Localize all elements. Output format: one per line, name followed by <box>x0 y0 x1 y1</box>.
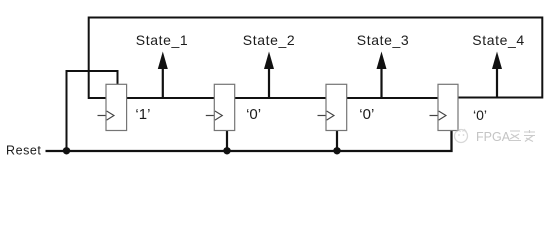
junction dot at U3 clear <box>333 147 340 154</box>
wire: reset rail <box>46 130 452 151</box>
clock stub U3 <box>318 115 326 117</box>
arrow shaft State_2 <box>268 67 270 98</box>
svg-text:State_2: State_2 <box>243 32 295 48</box>
arrow shaft State_4 <box>496 67 498 98</box>
flip-flop U3 <box>326 84 347 130</box>
wire: set input of U1 from reset rail <box>67 71 118 151</box>
svg-text:State_4: State_4 <box>472 32 524 48</box>
svg-text:‘0’: ‘0’ <box>246 106 261 123</box>
svg-text:State_3: State_3 <box>357 32 409 48</box>
arrowhead State_3 <box>377 52 387 70</box>
flip-flop U1 <box>106 84 127 130</box>
svg-text:FPGA: FPGA <box>476 130 511 144</box>
flip-flop U2 <box>214 84 234 130</box>
arrowhead State_2 <box>264 52 274 70</box>
clock input triangle U4 <box>439 111 446 120</box>
clock input triangle U2 <box>215 111 222 120</box>
svg-text:State_1: State_1 <box>136 32 188 48</box>
wire: feedback from Q4 along top rail to D input of U1 <box>89 18 543 99</box>
clock stub U4 <box>430 115 438 117</box>
junction dot at set wire and reset rail <box>63 147 70 154</box>
svg-text:‘0’: ‘0’ <box>473 107 487 123</box>
svg-text:‘1’: ‘1’ <box>135 106 150 123</box>
arrowhead State_4 <box>492 52 502 70</box>
wire: clear stub U2 <box>226 130 228 151</box>
wire: Q3 to D4 <box>347 97 439 99</box>
arrow shaft State_1 <box>162 67 164 98</box>
arrow shaft State_3 <box>380 67 382 98</box>
junction dot at U2 clear <box>223 147 230 154</box>
svg-text:Reset: Reset <box>6 144 41 157</box>
svg-text:‘0’: ‘0’ <box>359 106 374 123</box>
arrowhead State_1 <box>158 52 168 70</box>
wire: Q2 to D3 <box>235 97 327 99</box>
wire: Q1 to D2 <box>127 97 215 99</box>
watermark text CJK glyphs <box>509 130 535 142</box>
clock input triangle U1 <box>107 111 114 120</box>
clock stub U1 <box>98 115 106 117</box>
watermark logo circle <box>455 130 468 143</box>
clock input triangle U3 <box>327 111 334 120</box>
wire: clear stub U3 <box>336 130 338 151</box>
clock stub U2 <box>206 115 214 117</box>
flip-flop U4 <box>438 84 458 130</box>
